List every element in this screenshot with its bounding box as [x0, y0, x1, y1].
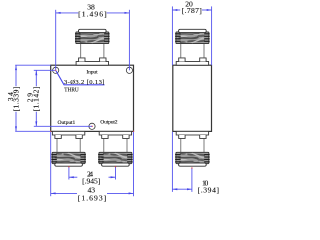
- svg-text:Input: Input: [86, 70, 98, 76]
- dim 10 arrows: [172, 188, 177, 190]
- output connector (side): [175, 131, 210, 166]
- dim 34 arrows: [15, 65, 17, 70]
- dim 38 line: [56, 12, 78, 14]
- svg-text:[1.496]: [1.496]: [78, 9, 107, 18]
- svg-text:3-Ø3.2 [0.13]: 3-Ø3.2 [0.13]: [64, 79, 104, 86]
- dim 10 line: [172, 188, 192, 190]
- dim 24 witness lines: [68, 167, 70, 180]
- dimension arrows: [15, 9, 212, 194]
- side view body: [173, 65, 212, 131]
- dim 43 witness lines: [50, 132, 52, 196]
- svg-text:Output1: Output1: [58, 120, 76, 126]
- output connector 2 (front): [98, 131, 133, 166]
- input connector (front): [75, 29, 110, 65]
- dim 38 witness lines: [55, 10, 57, 70]
- dim 29 extension top: [34, 69, 56, 71]
- dim 34 line: [15, 65, 17, 86]
- svg-text:[.394]: [.394]: [198, 185, 220, 194]
- mounting hole top-left: [53, 67, 59, 73]
- front view body: [51, 65, 134, 131]
- dim 20 arrows: [172, 9, 177, 11]
- dim 10 left witness: [171, 132, 173, 192]
- dim 10 right witness: [191, 168, 193, 192]
- dim 29 line: [35, 70, 37, 86]
- mounting hole top-right: [126, 67, 132, 73]
- leader for hole callout: [56, 71, 105, 85]
- red vertex dots: [68, 166, 69, 167]
- dim 20 line: [172, 9, 180, 11]
- svg-text:[.787]: [.787]: [182, 6, 202, 15]
- dim 43 line: [51, 192, 77, 194]
- dim 20 witness lines: [171, 6, 173, 65]
- input connector (side): [175, 29, 210, 65]
- dim 24 line: [69, 176, 77, 178]
- dim 29 arrows: [35, 70, 37, 75]
- svg-text:[1.339]: [1.339]: [12, 87, 21, 112]
- svg-text:THRU: THRU: [64, 87, 79, 94]
- dim 34 extension top: [15, 64, 51, 66]
- dim 43 arrows: [51, 192, 56, 194]
- dim 29 extension bottom: [34, 125, 92, 127]
- svg-text:Output2: Output2: [100, 120, 117, 126]
- dim 34 extension bottom: [15, 130, 51, 132]
- dim 38 arrows: [56, 12, 61, 14]
- svg-text:[1.693]: [1.693]: [78, 194, 106, 203]
- mounting hole bottom-center: [89, 123, 95, 129]
- svg-text:[.945]: [.945]: [82, 176, 100, 185]
- dim 24 arrows: [69, 176, 74, 178]
- output connector 1 (front): [51, 131, 86, 166]
- svg-text:[1.142]: [1.142]: [32, 87, 41, 112]
- red node at bottom hole center: [91, 126, 92, 127]
